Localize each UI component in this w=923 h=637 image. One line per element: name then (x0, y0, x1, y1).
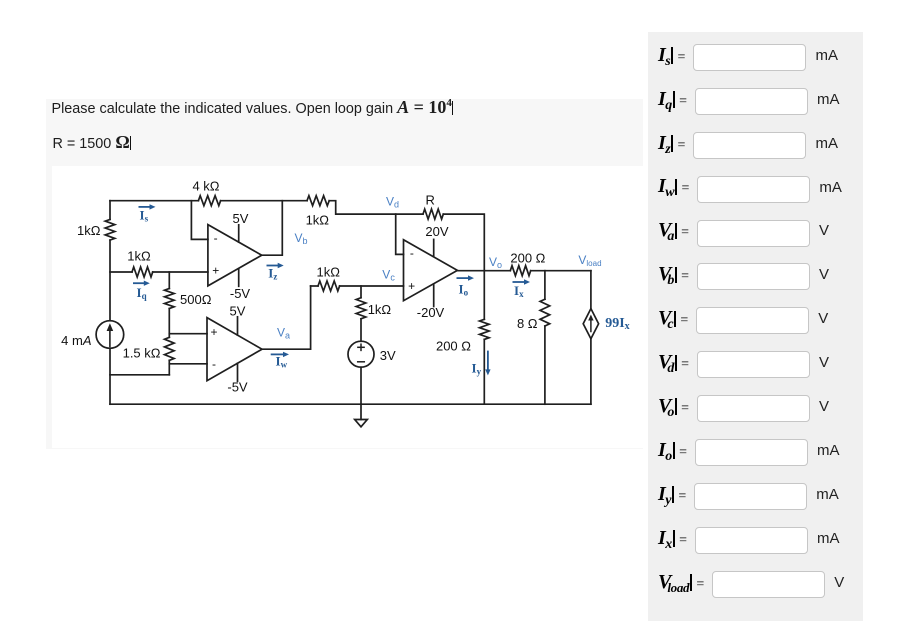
svg-text:4 mA: 4 mA (61, 333, 91, 348)
question line 1 (52, 97, 454, 118)
svg-text:Is: Is (140, 207, 149, 223)
arrow Is (139, 206, 152, 208)
wire load branch top (590, 271, 592, 309)
wire Vc drop (360, 286, 362, 298)
wire op3 output Vo (457, 270, 510, 272)
question line 2 (53, 132, 132, 153)
arrow Iq (133, 282, 145, 284)
svg-text:Iw: Iw (276, 354, 288, 370)
wire left rail top (109, 201, 111, 220)
svg-text:Vload: Vload (578, 253, 601, 268)
op1 +5V line (238, 225, 240, 242)
svg-text:R: R (426, 193, 435, 208)
op1 -5V line (238, 269, 240, 287)
resistor 200 horizontal (510, 266, 530, 276)
wire op2 minus input (169, 363, 207, 365)
wire Iy branch bottom (483, 339, 485, 404)
resistor 4k feedback (198, 196, 220, 206)
op-amp U1 (208, 225, 262, 286)
op3 +20V line (433, 239, 435, 256)
svg-text:-5V: -5V (230, 286, 251, 301)
op3 -20V line (433, 284, 435, 306)
answer panel (648, 32, 863, 620)
svg-text:Iq: Iq (137, 285, 147, 301)
svg-text:+: + (210, 325, 217, 339)
wire Iq segment (110, 271, 132, 273)
wire left rail bottom (109, 348, 111, 404)
wire R to feedback riser (443, 214, 484, 271)
op-amp U2 (207, 318, 262, 381)
ground (360, 404, 362, 419)
current source 4mA (96, 321, 124, 349)
op2 +5V line (237, 317, 239, 335)
op-amp U3 (404, 240, 458, 301)
wire load branch bottom (590, 339, 592, 404)
svg-text:-5V: -5V (227, 379, 248, 394)
svg-text:Vd: Vd (386, 194, 399, 209)
svg-text:20V: 20V (425, 224, 448, 239)
resistor 200 vertical Iy (480, 319, 490, 339)
op2 -5V line (237, 363, 239, 381)
wire top rail step to Vd (329, 201, 423, 214)
svg-text:Vo: Vo (489, 255, 502, 270)
arrow Iy (487, 351, 489, 371)
question background (46, 99, 643, 449)
wire feedback riser to Iy branch (483, 271, 485, 320)
wire jog to left rail (110, 374, 169, 376)
svg-text:8 Ω: 8 Ω (517, 316, 538, 331)
resistor 500 (165, 289, 175, 309)
svg-text:Vb: Vb (295, 231, 308, 246)
resistor 1k Vc vertical (356, 298, 366, 319)
svg-text:1kΩ: 1kΩ (368, 302, 392, 317)
svg-text:5V: 5V (230, 303, 246, 318)
wire Vo rail to load (531, 270, 591, 272)
resistor R (423, 209, 443, 219)
svg-text:Iy: Iy (472, 361, 482, 377)
resistor 8 ohm (540, 299, 550, 326)
svg-text:1kΩ: 1kΩ (306, 213, 330, 228)
svg-text:+: + (408, 279, 415, 293)
voltage source 3V (348, 341, 374, 367)
svg-text:Iz: Iz (268, 266, 277, 282)
wire op1 inverting input (191, 201, 208, 240)
resistor 1k left vertical (105, 219, 115, 240)
wire Va to 1k (311, 285, 318, 287)
svg-text:5V: 5V (233, 211, 249, 226)
svg-text:4 kΩ: 4 kΩ (192, 179, 219, 194)
resistor 1k Va-Vc (318, 281, 340, 291)
svg-text:200 Ω: 200 Ω (436, 339, 471, 354)
wire top rail left (110, 200, 198, 202)
wire 3V to bottom rail (360, 367, 362, 404)
arrow Ix (513, 281, 526, 283)
svg-text:Vc: Vc (382, 268, 395, 283)
dependent source 99Ix diamond (583, 309, 598, 339)
circuit image background (52, 166, 648, 448)
wire Vd drop to op3 minus (396, 214, 404, 254)
svg-text:99Ix: 99Ix (605, 316, 629, 332)
svg-text:-: - (212, 357, 216, 371)
wire 8ohm branch bottom (544, 326, 546, 404)
svg-text:1kΩ: 1kΩ (127, 249, 151, 264)
resistor 1k Iq (132, 267, 153, 277)
wire left rail mid (109, 240, 111, 321)
arrow Io (457, 277, 470, 279)
wire op2 plus input (169, 333, 207, 335)
resistor 1k top-right (307, 196, 329, 206)
svg-text:1.5 kΩ: 1.5 kΩ (123, 346, 161, 361)
svg-text:Va: Va (277, 325, 290, 340)
wire below 1.5k (168, 360, 170, 374)
arrow Iw (271, 353, 285, 355)
svg-text:-: - (410, 246, 414, 260)
wire op1 output (262, 201, 283, 256)
svg-text:Ix: Ix (514, 283, 524, 299)
wire Iq to op1 + (153, 271, 208, 273)
wire 500 to op2 plus node (168, 309, 170, 338)
svg-text:200 Ω: 200 Ω (510, 250, 545, 265)
svg-text:+: + (212, 264, 219, 278)
wire 8ohm branch top (544, 271, 546, 300)
svg-text:Io: Io (459, 282, 469, 298)
arrow Iz (267, 265, 280, 267)
resistor 1.5k (165, 337, 175, 360)
svg-text:500Ω: 500Ω (180, 292, 212, 307)
svg-text:1kΩ: 1kΩ (316, 265, 340, 280)
wire to op3 plus (340, 285, 404, 287)
svg-text:-20V: -20V (417, 305, 445, 320)
wire top rail mid (221, 200, 307, 202)
wire bottom rail (110, 403, 591, 405)
svg-text:1kΩ: 1kΩ (77, 223, 101, 238)
svg-text:-: - (214, 231, 218, 245)
svg-text:3V: 3V (380, 348, 396, 363)
wire 500 top stub (168, 272, 170, 289)
wire to 3V source (360, 319, 362, 342)
wire op2 output Va (262, 286, 311, 349)
